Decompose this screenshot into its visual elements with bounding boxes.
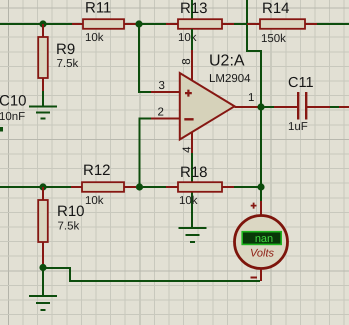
svg-text:150k: 150k	[261, 33, 286, 45]
middle rail right to output node	[234, 186, 258, 188]
resistor R12	[71, 162, 136, 207]
wire pin2 corner to middle rail	[140, 119, 152, 188]
svg-text:1: 1	[248, 92, 254, 104]
capacitor C10 labels (component off-screen left)	[0, 93, 27, 124]
wire R9 to ground	[42, 91, 44, 106]
node output junction (261,107)	[257, 103, 264, 110]
pin 1 lead	[235, 106, 259, 108]
middle rail left	[0, 186, 71, 188]
node junction E (43,267.5)	[39, 264, 46, 271]
wire top rail right of R13	[234, 23, 247, 25]
resistor R14	[247, 0, 317, 45]
wire output to C11	[265, 106, 275, 108]
svg-text:R10: R10	[57, 203, 85, 220]
middle rail mid	[143, 186, 166, 188]
voltmeter positive pin	[260, 201, 262, 216]
wire bottom rail	[43, 268, 260, 281]
svg-text:R18: R18	[180, 164, 208, 181]
node junction B (139.5,187)	[136, 183, 143, 190]
node junction A (139,24)	[135, 20, 142, 27]
svg-text:R14: R14	[262, 0, 290, 17]
svg-text:7.5k: 7.5k	[58, 221, 80, 233]
svg-text:8: 8	[181, 58, 193, 64]
wire top rail left	[0, 23, 72, 25]
resistor R13	[166, 0, 234, 44]
svg-text:Volts: Volts	[250, 248, 275, 260]
svg-text:C10: C10	[0, 93, 27, 110]
junction node D (43,187)	[39, 183, 46, 190]
pin 3 lead	[151, 91, 180, 93]
svg-text:C11: C11	[288, 75, 314, 91]
wire from node E to ground	[42, 268, 44, 297]
ground below pin4	[179, 228, 207, 242]
voltmeter body	[235, 216, 288, 269]
wire vertical behind R13 from top edge	[191, 0, 193, 50]
svg-text:1uF: 1uF	[288, 121, 308, 133]
resistor R9	[38, 24, 78, 91]
svg-text:4: 4	[182, 146, 194, 153]
node junction F (43,24)	[39, 20, 46, 27]
svg-text:R12: R12	[83, 162, 111, 179]
wire right of C11	[330, 106, 339, 108]
svg-text:R11: R11	[85, 0, 111, 17]
svg-text:7.5k: 7.5k	[57, 58, 79, 70]
resistor R10	[38, 187, 84, 264]
pin from right edge	[339, 106, 349, 108]
svg-text:R13: R13	[180, 0, 208, 17]
svg-text:U2:A: U2:A	[209, 53, 245, 70]
svg-text:10k: 10k	[178, 32, 197, 44]
ground below R9	[29, 107, 57, 119]
svg-text:nan: nan	[255, 233, 273, 245]
wire stub left edge	[0, 127, 3, 132]
svg-text:10nF: 10nF	[0, 111, 25, 123]
wire top rail to right edge	[317, 23, 349, 25]
wire vertical from node A down	[139, 24, 151, 92]
pin 8 lead	[191, 50, 193, 81]
svg-text:LM2904: LM2904	[209, 73, 251, 85]
voltmeter negative pin	[260, 269, 262, 282]
voltmeter display	[242, 232, 281, 245]
node junction C (261,187)	[257, 183, 264, 190]
svg-text:2: 2	[158, 107, 164, 119]
wire pin 4 to ground behind R18	[191, 153, 193, 227]
svg-text:3: 3	[159, 80, 165, 92]
resistor R11	[72, 0, 136, 44]
ground bottom left	[29, 296, 57, 310]
voltmeter plus sign	[251, 203, 257, 209]
svg-text:10k: 10k	[179, 195, 198, 207]
svg-text:10k: 10k	[85, 195, 104, 207]
pin 2 lead	[151, 118, 180, 120]
pin 4 lead	[191, 132, 193, 153]
capacitor C11	[274, 75, 330, 133]
wire vertical feedback from top edge to output node	[247, 0, 261, 201]
svg-text:10k: 10k	[85, 32, 104, 44]
wire R13 box to pin 8	[191, 29, 193, 50]
svg-text:R9: R9	[56, 41, 75, 58]
voltmeter minus sign	[251, 277, 258, 279]
wire top rail mid	[139, 23, 166, 25]
resistor R18	[166, 164, 234, 207]
op-amp U2:A	[180, 53, 251, 140]
